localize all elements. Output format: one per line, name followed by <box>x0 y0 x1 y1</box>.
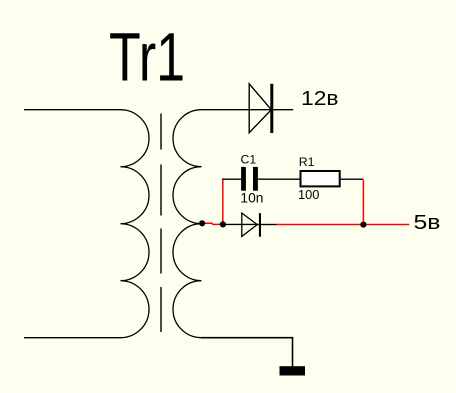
diode VD2 cathode bar <box>259 213 261 237</box>
svg-text:100: 100 <box>298 187 319 202</box>
ground <box>280 366 306 375</box>
wire tap to diode VD2 <box>223 223 259 225</box>
wire red vertical from R1 corner <box>362 180 364 225</box>
wire primary bottom <box>24 337 121 339</box>
transformer Tr1 primary winding <box>121 110 150 338</box>
svg-text:Tr1: Tr1 <box>109 19 185 96</box>
wire secondary top to diode VD1 <box>202 109 271 111</box>
svg-text:10n: 10n <box>240 191 263 206</box>
wire red to 5v <box>277 224 410 226</box>
svg-text:C1: C1 <box>241 153 257 167</box>
transformer Tr1 secondary winding <box>173 110 202 338</box>
wire red vertical to C1 branch <box>222 180 224 224</box>
wire VD1 cathode to 12v <box>273 109 293 111</box>
node 5v junction <box>360 222 366 228</box>
wire primary top <box>24 109 121 111</box>
node tap junction <box>199 220 205 226</box>
wire tap red segment <box>202 223 223 224</box>
wire to capacitor C1 <box>222 178 241 180</box>
wire VD2 cathode black segment <box>261 224 277 226</box>
wire R1 to corner <box>341 178 364 180</box>
svg-text:12в: 12в <box>301 88 339 110</box>
diode VD1 triangle <box>249 84 271 133</box>
wire secondary bottom <box>202 338 293 367</box>
wire C1 to R1 <box>258 178 300 180</box>
diode VD2 triangle <box>242 213 257 236</box>
svg-text:5в: 5в <box>414 212 441 234</box>
node branch junction <box>220 221 226 227</box>
capacitor C1 plate left <box>241 167 246 191</box>
resistor R1 body <box>301 171 340 186</box>
capacitor C1 plate right <box>253 167 258 191</box>
diode VD1 cathode bar <box>270 84 273 133</box>
transformer core <box>160 114 162 333</box>
svg-text:R1: R1 <box>299 155 315 169</box>
